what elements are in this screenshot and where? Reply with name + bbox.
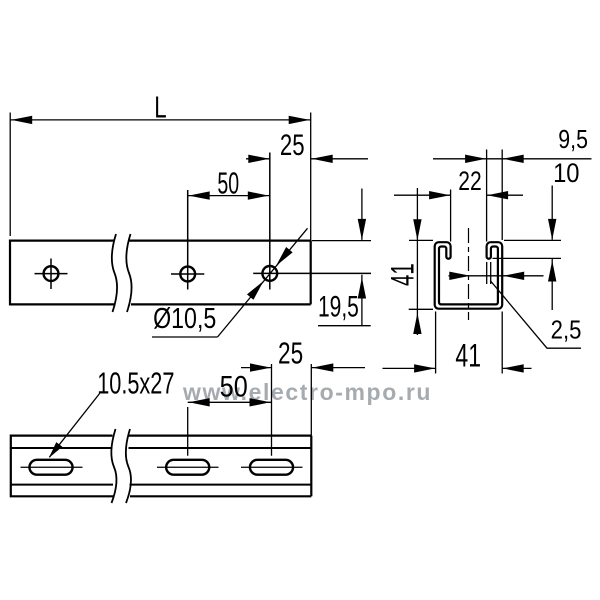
label Ø10,5 [153,301,216,334]
arrow 25 top right [312,155,333,163]
dimension 10 line [551,186,553,311]
arrow leader 10.5x27 [46,442,62,460]
dimension L extension lines [10,113,311,241]
arrow 50 bottom right [250,398,271,406]
bar outline left part [10,240,115,306]
slot 1 [29,460,72,475]
hole 3 centerlines [253,153,371,290]
arrow 25 bottom left [250,363,271,371]
break wavy line 1 [111,429,116,503]
arrow 22 left [429,191,450,199]
dimension 41 left extension lines [409,240,433,309]
dimension 22 extension line [450,190,452,242]
svg-text:19,5: 19,5 [318,291,359,323]
dimension 25 bottom right extension line [310,364,312,436]
centerline [468,228,470,320]
svg-text:50: 50 [217,167,239,201]
svg-text:10: 10 [553,159,579,189]
label 10.5x27 [97,366,174,401]
dimension 50 bottom extension lines [188,364,272,456]
svg-text:L: L [154,90,166,124]
label 50 [217,167,239,201]
dimension 9,5 extension lines [487,150,503,242]
arrow 41 bottom right [503,364,524,372]
arrow 9,5 right [503,155,524,163]
break wavy line 2 [126,429,131,503]
dimension 25 bottom line [241,367,365,369]
svg-text:22: 22 [458,166,481,196]
arrow 10 down [548,219,556,240]
label 19,5 [318,291,359,323]
label 41 [385,263,421,286]
dimension 22 line [394,194,523,196]
svg-text:2,5: 2,5 [551,316,582,345]
arrow 25 bottom right [312,363,333,371]
hole 3 circle [262,266,277,281]
label 10 [553,159,579,189]
svg-text:50: 50 [220,370,248,404]
hole 1 circle [44,266,59,281]
break wavy line 1 [112,234,117,312]
label 9,5 [558,125,588,155]
arrow half-width right [449,272,470,280]
rail outline left part [11,435,114,498]
arrow 10 up [548,261,556,282]
slot 3 [250,460,293,475]
arrow L right [289,116,310,124]
svg-text:9,5: 9,5 [558,125,588,155]
arrow 19,5 up [358,278,366,299]
leader 10.5x27 line [49,394,99,458]
svg-text:10.5x27: 10.5x27 [97,366,174,401]
slot 2 [166,460,209,475]
label 25 [278,336,303,370]
arrow 41 left top [413,219,421,240]
dimension 19,5 line and underline [318,189,371,326]
dimension 50 top line [188,195,270,197]
slot 2 centerline [157,466,219,468]
dimension 10 extension lines [493,240,562,258]
arrow 50 top left [189,191,210,199]
rail inner edge lines [11,448,312,485]
label 2,5 [551,316,582,345]
bar outline right part [129,241,311,305]
arrow 41 bottom left [414,364,435,372]
profile outline [435,242,503,309]
dimension 41 bottom line [383,367,532,369]
svg-text:25: 25 [278,336,303,370]
arrow 22 right [487,191,508,199]
arrow 50 bottom left [189,398,210,406]
label 41 [455,338,481,374]
leader 2,5 [490,281,581,349]
dimension 19,5 top extension line [312,240,371,242]
break wavy line 2 [126,234,131,312]
lip thickness extension lines [487,262,491,284]
rail outline right part [128,436,311,497]
dimension 25 top line [246,158,368,160]
arrow 9,5 left [465,155,486,163]
arrow 41 left bottom [413,313,421,334]
svg-text:41: 41 [455,338,481,374]
half-width dimension line [449,275,544,277]
hole 2 circle [180,267,195,282]
label 50 [220,370,248,404]
diameter leader diagonal [218,228,308,337]
dimension 9,5 line [433,158,592,160]
svg-text:25: 25 [280,128,305,162]
arrow diameter upper [273,247,293,269]
arrow diameter lower [247,278,267,300]
slot 3 centerline [241,466,303,468]
dimension L line [10,119,311,121]
label L [154,90,166,124]
svg-text:41: 41 [385,263,421,286]
label 22 [458,166,481,196]
slot 1 centerline [21,466,83,468]
dimension 50 bottom line [188,401,272,403]
label 25 [280,128,305,162]
dimension 41 bottom extension lines [436,312,503,374]
svg-text:Ø10,5: Ø10,5 [153,301,216,334]
diameter label underline [152,336,218,338]
hole 2 centerlines [171,190,204,290]
arrow L left [11,116,32,124]
arrow 19,5 down [358,219,366,240]
arrow half-width left [503,272,524,280]
arrow 25 top left [248,155,269,163]
arrow 50 top right [248,191,269,199]
hole 1 centerlines [35,259,68,290]
dimension 41 left line [416,188,418,335]
